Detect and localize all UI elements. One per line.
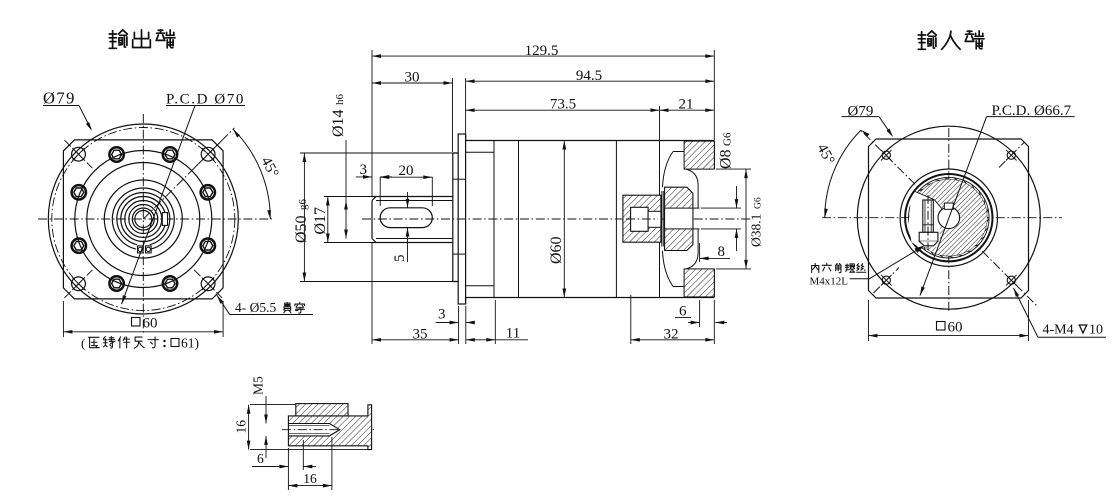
left view: boss circle D79 — [48, 124, 238, 314]
left view: dimension square-60 — [62, 301, 64, 337]
svg-text:Ø79: Ø79 — [43, 89, 76, 108]
detail view: key block — [296, 404, 348, 416]
svg-text:60: 60 — [143, 316, 158, 332]
svg-text:35: 35 — [413, 326, 428, 342]
mid view: screw shank hole — [648, 211, 661, 227]
dim 94.5 — [466, 80, 715, 82]
mid view: body internal verticals — [493, 141, 495, 298]
svg-text:Ø60: Ø60 — [548, 236, 565, 264]
right view: screw centerline — [927, 195, 929, 250]
right view: wedge boundary lines — [915, 192, 943, 210]
svg-text:Ø50: Ø50 — [293, 215, 310, 243]
detail view: top alignment line — [250, 403, 296, 405]
mid view: screw socket cavity — [631, 207, 649, 231]
dim 11 — [494, 300, 496, 344]
svg-text:4-M4: 4-M4 — [1043, 323, 1074, 338]
svg-text:Ø14: Ø14 — [330, 109, 347, 137]
left view: centerlines — [38, 218, 272, 220]
right view: bore keyway notch — [944, 203, 953, 209]
svg-text:11: 11 — [506, 326, 520, 342]
detail view: dim 16 depth — [287, 448, 289, 490]
mid view: main centerline — [362, 218, 753, 220]
mid view: clamp hub left block — [623, 195, 661, 242]
svg-text:h6: h6 — [334, 94, 346, 106]
right view: 4 corner tapped holes M4 — [882, 151, 890, 159]
mid view: spigot step lines — [453, 178, 466, 180]
svg-text:16: 16 — [303, 471, 317, 486]
left view: 4 corner through-holes D5.5 — [72, 147, 86, 161]
svg-text:3: 3 — [438, 307, 446, 323]
dim 21 — [660, 109, 715, 111]
mid view: body internal ring lines — [466, 151, 494, 153]
left view: spigot circle D50 — [87, 163, 200, 276]
svg-text:20: 20 — [399, 163, 414, 179]
right view: label hex socket screw M4x12L — [812, 263, 819, 272]
svg-text:73.5: 73.5 — [550, 97, 576, 113]
mid view: socket centerline dash — [626, 218, 658, 220]
header: output end (Chinese) — [109, 30, 127, 48]
dim keyway 20 — [379, 177, 381, 206]
right view: 45 degree dimension arc — [825, 130, 861, 218]
left view: 45 degree dimension arc — [233, 129, 270, 219]
right view: clamp screw shank — [923, 200, 934, 232]
svg-text:129.5: 129.5 — [525, 43, 559, 59]
mid view: gearbox body outline — [466, 134, 715, 304]
left view: hub circle with keyway — [121, 197, 166, 242]
mid view: keyway slot (stadium) — [380, 208, 432, 228]
right view: square flange outline — [869, 139, 1029, 298]
right view: diagonal centerlines — [861, 131, 949, 218]
dim 35 — [371, 243, 373, 344]
svg-text:g6: g6 — [297, 199, 309, 211]
dim 129.5 — [371, 50, 373, 196]
left view: screw ring circle — [75, 151, 212, 288]
dim 73.5 — [659, 106, 661, 140]
mid view: output shaft outline — [372, 197, 453, 243]
svg-text:(: ( — [81, 336, 85, 351]
dim D8 G6 — [701, 207, 741, 209]
right view: motor bore D8 — [938, 207, 960, 229]
right view: bearing retainer circles — [900, 169, 997, 266]
left view: bolt circle PCD70 (dash-dot) — [52, 128, 235, 311]
svg-text:61): 61) — [181, 336, 199, 351]
left view: shaft circles — [125, 201, 162, 238]
dim D50 g6 — [303, 153, 305, 282]
detail view: dim 16 height — [248, 405, 250, 450]
mid view: adapter steps and bell curves — [673, 151, 684, 153]
right view: centerlines — [822, 217, 1062, 219]
dim D38.1 G6 — [716, 168, 751, 170]
left view: circlip ears — [138, 246, 144, 253]
header: input end (Chinese) — [918, 31, 936, 49]
svg-text:10: 10 — [1089, 323, 1103, 338]
left view: keyway slot — [162, 213, 167, 226]
svg-text:5: 5 — [392, 255, 408, 263]
left view: boss circle — [104, 180, 182, 258]
mid view: adapter plate hatched blocks — [684, 141, 714, 169]
left view: square flange outline — [63, 140, 223, 299]
svg-text:Ø8: Ø8 — [718, 149, 735, 169]
left view: corner-hole radial centerlines — [65, 140, 93, 168]
detail view: shaft body hatched — [288, 405, 371, 450]
right view: dimension square-60 — [868, 300, 870, 341]
svg-text:4- Ø5.5: 4- Ø5.5 — [235, 300, 276, 315]
svg-text:Ø17: Ø17 — [312, 207, 329, 235]
dim 32 — [630, 295, 632, 344]
dim D17 — [324, 196, 372, 198]
dim D14 h6 — [345, 140, 347, 239]
right view: serrated washer ring — [909, 177, 990, 258]
right view: clamp wedge clearance (white) — [909, 192, 944, 248]
svg-text:6: 6 — [257, 451, 264, 466]
svg-text:16: 16 — [234, 420, 249, 434]
svg-text:8: 8 — [718, 244, 726, 260]
left view: 45-deg diagonal centerline — [143, 128, 234, 219]
dim keyway depth 5 — [407, 192, 409, 208]
mid view: flange plate (square edge-on) — [458, 134, 465, 304]
mid view: shaft chamfer inner lines — [376, 200, 453, 202]
svg-text:21: 21 — [679, 97, 694, 113]
right view: clamp screw head — [919, 232, 938, 241]
dim D60 — [563, 141, 565, 298]
svg-text:30: 30 — [405, 69, 420, 85]
right view: hatched clamp collar disc — [911, 179, 987, 255]
mid view: motor shaft bore D8 — [665, 208, 693, 229]
left view: 8 hex socket screws — [163, 147, 177, 161]
detail view: M5 thread lines — [288, 425, 329, 427]
svg-text:94.5: 94.5 — [576, 68, 602, 84]
mid view: spigot D50 front — [453, 153, 458, 282]
svg-text:60: 60 — [948, 320, 963, 336]
svg-text:M4x12L: M4x12L — [810, 276, 849, 288]
svg-text:G6: G6 — [754, 197, 764, 209]
svg-text:Ø38.1: Ø38.1 — [749, 214, 764, 247]
detail view: centerline — [282, 429, 374, 431]
left view: retaining ring (circlip) — [112, 188, 174, 249]
svg-text:G6: G6 — [722, 132, 734, 146]
left view: label 4-D5.5 through-holes — [217, 295, 230, 314]
right view: boss circle D79 — [857, 126, 1040, 309]
mid view: clamp hub right block — [665, 187, 693, 250]
dim 30 — [452, 78, 454, 152]
svg-text:32: 32 — [664, 326, 679, 342]
svg-text:M5: M5 — [251, 376, 266, 395]
mid view: clamp slit — [661, 191, 663, 247]
